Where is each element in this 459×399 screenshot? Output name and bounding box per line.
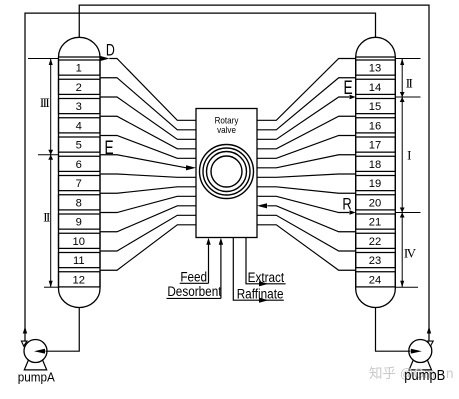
- svg-text:3: 3: [76, 101, 82, 113]
- wire feed line into valve bottom: [206, 238, 210, 283]
- svg-text:9: 9: [76, 217, 82, 229]
- cell 16 of right column: [356, 118, 396, 133]
- cell 5 of left column: [59, 137, 101, 152]
- svg-text:Raffinate: Raffinate: [237, 285, 284, 301]
- svg-text:4: 4: [76, 120, 82, 132]
- label R right: [342, 195, 351, 214]
- svg-text:pumpA: pumpA: [18, 370, 56, 385]
- svg-text:20: 20: [369, 197, 381, 209]
- dimension extension line at left top: [28, 58, 59, 60]
- cell 8 of left column: [59, 195, 101, 210]
- svg-text:13: 13: [369, 63, 381, 75]
- label E left: [104, 137, 113, 159]
- rotary valve body U1: [196, 109, 257, 238]
- wire line left column boundary 7 to valve port 8: [100, 187, 196, 193]
- svg-text:23: 23: [369, 255, 381, 267]
- cell 23 of right column: [356, 253, 396, 268]
- wire line left column boundary 1 to valve port 2: [100, 78, 196, 130]
- cell 17 of right column: [356, 137, 396, 152]
- cell 6 of left column: [59, 156, 101, 171]
- cell 4 of left column: [59, 118, 101, 133]
- wire line left column boundary 10 to valve port 11: [100, 215, 196, 251]
- watermark zhihu: [369, 365, 454, 381]
- wire line left column boundary 9 to valve port 10: [100, 206, 196, 232]
- label zone II left: [43, 210, 50, 225]
- svg-text:E: E: [343, 77, 352, 99]
- wire raffinate line out of valve bottom: [233, 238, 283, 303]
- wire line right column boundary 4 to valve port 5: [257, 136, 356, 159]
- wire line left column boundary 4 to valve port 5: [100, 136, 196, 159]
- rotary valve ring 1: [200, 145, 254, 199]
- svg-text:III: III: [40, 95, 49, 110]
- svg-text:12: 12: [73, 274, 85, 286]
- pump pumpB: [409, 340, 433, 370]
- cell 7 of left column: [59, 176, 101, 191]
- cell 9 of left column: [59, 214, 101, 229]
- svg-text:pumpB: pumpB: [404, 367, 445, 383]
- wire left column bottom to pumpA inlet: [34, 308, 79, 354]
- label zone IV: [404, 246, 417, 261]
- cell 21 of right column: [356, 214, 396, 229]
- wire recycle pipe from left column top across to right edge down to pumpB: [79, 5, 429, 341]
- svg-text:18: 18: [369, 159, 381, 171]
- pump pumpA: [21, 340, 47, 370]
- cell 11 of left column: [59, 253, 101, 268]
- dimension extension line at right top: [395, 58, 420, 60]
- cell 12 of left column: [59, 272, 101, 287]
- wire desorbent line into valve bottom: [219, 238, 223, 299]
- cell 1 of left column: [59, 60, 101, 75]
- wire line left column boundary 2 to valve port 3: [100, 97, 196, 139]
- dimension bowtie right cell14/15: [400, 92, 405, 102]
- left column shell: [59, 37, 101, 307]
- svg-text:E: E: [104, 137, 113, 159]
- svg-text:6: 6: [76, 159, 82, 171]
- svg-text:15: 15: [369, 101, 381, 113]
- label Extract: [248, 269, 285, 285]
- arrow up on right recycle pipe above pumpB: [427, 327, 431, 334]
- cell 20 of right column: [356, 195, 396, 210]
- wire line right column boundary 0 to valve port 1: [257, 59, 356, 121]
- rotary valve ring 2: [203, 148, 250, 195]
- svg-text:Extract: Extract: [248, 269, 285, 285]
- label pumpB: [404, 367, 445, 383]
- wire line right column boundary 3 to valve port 4: [257, 116, 356, 149]
- svg-text:21: 21: [369, 217, 381, 229]
- wire line left column boundary 8 to valve port 9: [100, 196, 196, 212]
- svg-text:2: 2: [76, 82, 82, 94]
- svg-text:19: 19: [369, 178, 381, 190]
- svg-text:Desorbent: Desorbent: [167, 283, 222, 299]
- cell 14 of right column: [356, 79, 396, 94]
- dimension extension line at right cell14/15: [395, 96, 420, 98]
- dimension extension line at right cell20/21: [395, 212, 420, 214]
- wire line left column boundary 6 to valve port 7: [100, 174, 196, 177]
- dimension arrow right top: [400, 59, 404, 66]
- dimension extension line at left cell5/6: [38, 154, 59, 156]
- wire line right column boundary 10 to valve port 11: [257, 215, 356, 251]
- label pumpA: [18, 370, 56, 385]
- cell 24 of right column: [356, 272, 396, 287]
- dimension line right zones: [401, 59, 403, 288]
- label Feed: [180, 268, 209, 284]
- svg-text:22: 22: [369, 236, 381, 248]
- label zone II right: [406, 76, 413, 91]
- dimension bowtie right cell20/21: [400, 208, 405, 218]
- wire line left column boundary 11 to valve port 12: [100, 225, 196, 270]
- wire line cell5/6 (E extract) to valve port 6 with arrow into valve: [100, 155, 196, 171]
- cell 2 of left column: [59, 79, 101, 94]
- cell 3 of left column: [59, 99, 101, 114]
- wire line valve port 9 to cell20/21 (R) with arrow into column: [257, 196, 356, 214]
- svg-text:7: 7: [76, 178, 82, 190]
- cell 22 of right column: [356, 233, 396, 248]
- wire right column bottom to pumpB inlet: [376, 308, 422, 354]
- arrow up on left recycle pipe above pumpA: [23, 327, 27, 334]
- cell 13 of right column: [356, 60, 396, 75]
- dimension arrow right bottom: [400, 281, 404, 288]
- svg-text:1: 1: [76, 63, 82, 75]
- wire line cell1-top (D) to valve port 1 with arrow D: [100, 56, 196, 120]
- label Desorbent: [167, 283, 222, 299]
- dimension arrow left top: [49, 59, 53, 66]
- svg-text:10: 10: [73, 236, 85, 248]
- dimension arrow left bottom: [49, 281, 53, 288]
- cell 10 of left column: [59, 233, 101, 248]
- svg-text:11: 11: [73, 255, 85, 267]
- wire line right column boundary 11 to valve port 12: [257, 225, 356, 270]
- svg-text:5: 5: [76, 140, 82, 152]
- dimension extension line at left bottom: [44, 286, 60, 288]
- wire recycle pipe from pumpA up left edge across to right column top: [25, 13, 376, 341]
- cell 15 of right column: [356, 99, 396, 114]
- wire extract line out of valve bottom: [246, 238, 286, 287]
- dimension bowtie left cell5/6: [48, 150, 53, 160]
- label Raffinate: [237, 285, 284, 301]
- label E right: [343, 77, 352, 99]
- dimension extension line at right bottom: [395, 286, 418, 288]
- label zone III: [40, 95, 49, 110]
- wire line right column boundary 5 to valve port 6: [257, 155, 356, 168]
- label zone I: [407, 148, 411, 163]
- label D: [106, 42, 115, 60]
- wire line right column boundary 6 to valve port 7: [257, 174, 356, 177]
- svg-text:R: R: [342, 195, 351, 214]
- svg-text:16: 16: [369, 120, 381, 132]
- right column shell: [356, 37, 396, 307]
- rotary valve ring 3: [207, 152, 247, 192]
- svg-text:24: 24: [369, 274, 381, 286]
- dimension line left zones: [50, 59, 52, 288]
- wire line right column boundary 1 to valve port 2: [257, 78, 356, 130]
- wire line valve port 3 to cell14/15 (E) with arrow into column: [257, 95, 356, 140]
- svg-text:14: 14: [369, 82, 381, 94]
- svg-text:17: 17: [369, 140, 381, 152]
- svg-text:D: D: [106, 42, 115, 60]
- cell 18 of right column: [356, 156, 396, 171]
- wire line left column boundary 3 to valve port 4: [100, 116, 196, 149]
- svg-text:8: 8: [76, 197, 82, 209]
- rotary valve label: [215, 115, 240, 135]
- wire line right column boundary 7 to valve port 8: [257, 187, 356, 193]
- svg-text:valve: valve: [217, 124, 236, 135]
- wire line cell22/23 to valve port 10 with arrow into valve: [257, 203, 356, 232]
- rotary valve ring 4: [211, 156, 242, 187]
- cell 19 of right column: [356, 176, 396, 191]
